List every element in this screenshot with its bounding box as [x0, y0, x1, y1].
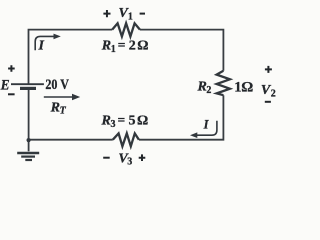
svg-text:=: = [118, 113, 126, 128]
svg-text:5: 5 [129, 114, 136, 129]
svg-text:2: 2 [271, 89, 276, 100]
svg-text:=: = [118, 38, 126, 53]
svg-text:R: R [50, 100, 60, 115]
svg-text:E: E [0, 77, 10, 93]
svg-text:2: 2 [129, 39, 136, 54]
svg-text:I: I [203, 117, 210, 131]
svg-text:R: R [197, 80, 207, 95]
svg-text:3: 3 [127, 157, 132, 168]
svg-text:R: R [101, 39, 111, 54]
svg-text:R: R [101, 114, 111, 129]
svg-text:1: 1 [128, 12, 133, 23]
svg-text:Ω: Ω [241, 79, 253, 95]
svg-text:Ω: Ω [137, 39, 148, 54]
svg-text:2: 2 [206, 85, 211, 96]
svg-text:T: T [60, 106, 67, 117]
svg-text:20 V: 20 V [45, 77, 69, 93]
svg-text:Ω: Ω [137, 114, 148, 129]
svg-text:1: 1 [111, 44, 116, 55]
svg-text:3: 3 [111, 119, 116, 130]
svg-text:I: I [38, 39, 45, 54]
